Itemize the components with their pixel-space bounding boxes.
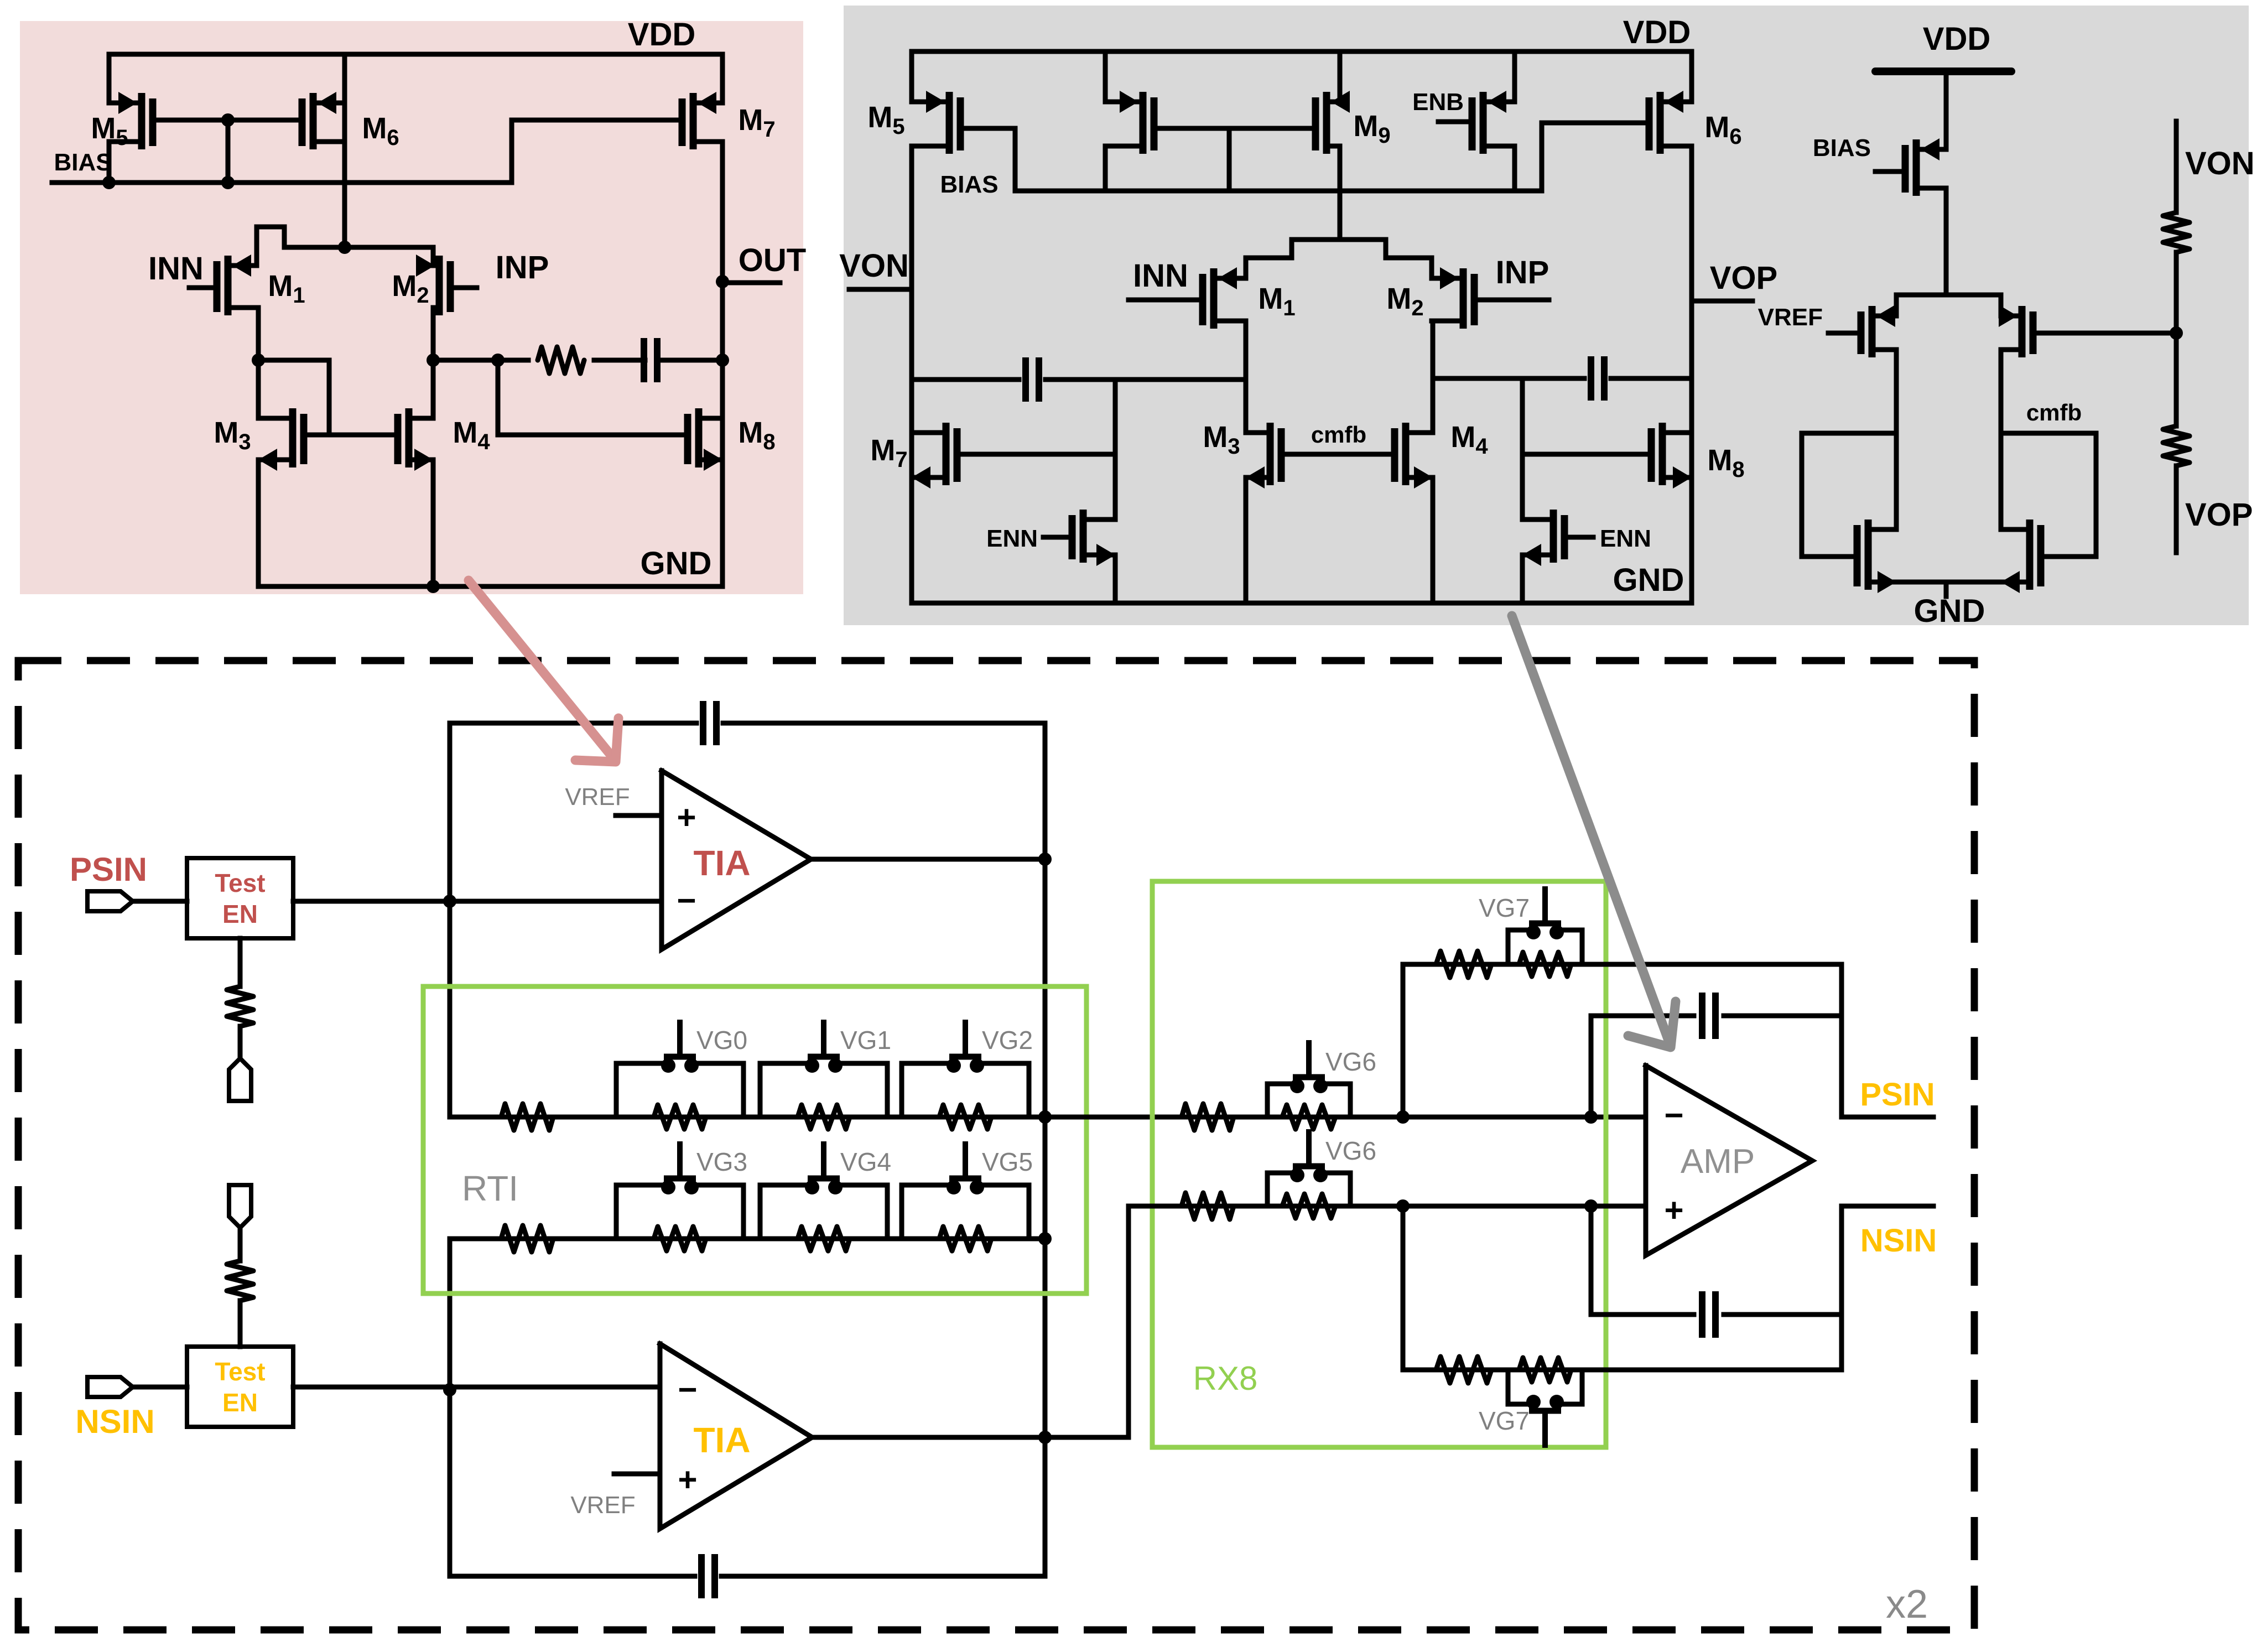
svg-text:NSIN: NSIN: [75, 1403, 154, 1440]
svg-text:NSIN: NSIN: [1860, 1223, 1937, 1259]
svg-text:VG7: VG7: [1479, 893, 1530, 922]
switch resistor unit VG5: [902, 1185, 954, 1239]
svg-text:VG4: VG4: [840, 1147, 891, 1176]
svg-text:OUT: OUT: [739, 242, 806, 278]
transistor M3 (gray NMOS): [1267, 423, 1274, 485]
tail bump bus of gray M1/M2: [1246, 240, 1432, 278]
wire M6 source/drain vertical (VDD to tail node): [342, 54, 347, 247]
switch resistor unit VG6 bottom: [1267, 1173, 1297, 1206]
left diode loop wire: [1802, 433, 1896, 557]
M8 gate tap wire: [498, 360, 688, 435]
feedback column left: [448, 901, 453, 1117]
svg-text:VDD: VDD: [628, 17, 695, 53]
svg-text:VREF: VREF: [570, 1492, 635, 1519]
transistor M1 (gray NMOS input): [1210, 268, 1218, 329]
transistor M6 (pink PMOS): [310, 93, 317, 149]
svg-text:VG2: VG2: [982, 1026, 1033, 1054]
TIA2 output wire: [812, 1206, 1129, 1437]
op-amp AMP triangle: [1646, 1066, 1812, 1255]
svg-text:Test: Test: [215, 869, 265, 897]
svg-text:GND: GND: [1914, 593, 1985, 629]
wire M2 drain down to node: [431, 308, 436, 360]
svg-text:−: −: [1664, 1097, 1683, 1134]
svg-text:ENB: ENB: [1412, 89, 1464, 116]
left cap tap down to M7 gate: [1113, 380, 1118, 520]
node line right with RC branch: [427, 354, 440, 367]
svg-text:x2: x2: [1886, 1582, 1928, 1627]
wire Test EN 1 to TIA1 minus: [293, 899, 662, 904]
CMFB left NMOS (diode): [1865, 520, 1872, 590]
transistor M5 (gray PMOS): [946, 92, 953, 154]
compensation capacitor (pink): [641, 338, 647, 382]
row 1 leading resistor: [501, 1104, 553, 1130]
VDD rail (pink): [109, 54, 722, 103]
M7 gate wire to ENN drain node: [957, 452, 1115, 457]
right cap tap down to M8 gate: [1520, 378, 1525, 520]
ENB gate stub and label: [1438, 120, 1472, 124]
VDD bar of CMFB: [1875, 67, 2011, 75]
switch resistor unit VG7 top: [1508, 930, 1533, 964]
svg-text:VG1: VG1: [840, 1026, 891, 1054]
cmfb gate wire M3-M4 and label: [1281, 452, 1395, 457]
svg-text:VOP: VOP: [2185, 497, 2253, 533]
switch resistor unit VG2: [902, 1063, 954, 1117]
svg-text:−: −: [677, 882, 696, 919]
svg-text:cmfb: cmfb: [2026, 399, 2082, 425]
svg-text:ENN: ENN: [1600, 525, 1651, 552]
svg-text:VDD: VDD: [1923, 21, 1990, 57]
BIAS rail (pink): [52, 120, 682, 183]
switch resistor unit VG0: [616, 1063, 668, 1117]
ENN gate stub and label (right): [1564, 535, 1593, 540]
svg-text:VREF: VREF: [1758, 304, 1823, 331]
PSIN output wire and label: [1842, 1115, 1933, 1120]
svg-text:Test: Test: [215, 1357, 265, 1386]
svg-text:INN: INN: [148, 251, 204, 287]
VON stub and label (gray): [849, 287, 912, 292]
bias mirror PMOS (gray, unlabeled): [1140, 92, 1147, 154]
ENN switch NMOS right (gray): [1550, 510, 1557, 563]
svg-text:AMP: AMP: [1681, 1142, 1755, 1181]
VON-VOP resistor divider: [2174, 121, 2179, 212]
svg-text:BIAS: BIAS: [940, 171, 998, 198]
svg-text:GND: GND: [641, 546, 712, 581]
BIAS line (gray): [1015, 189, 1542, 194]
svg-text:VG7: VG7: [1479, 1406, 1530, 1435]
transistor M9 (gray PMOS): [1323, 92, 1330, 154]
wire M7 drain to OUT vertical: [720, 142, 725, 586]
TIA1 feedback loop with capacitor: [450, 723, 696, 901]
wire gate node to BIAS rail: [226, 120, 231, 183]
svg-text:+: +: [677, 799, 696, 836]
row 2 wire (RTI lower chain): [450, 1237, 1045, 1241]
transistor M8 (pink NMOS): [695, 408, 703, 467]
NSIN output wire and label: [1842, 1204, 1933, 1209]
gate line bias PMOS to M9 with jog to BIAS: [1154, 126, 1315, 131]
svg-text:PSIN: PSIN: [1860, 1077, 1935, 1113]
VDD rail (gray): [912, 51, 1692, 102]
right diode loop wire: [2001, 433, 2096, 557]
TIA2 feedback loop with capacitor: [450, 1239, 695, 1576]
junction dots minus loops: [1396, 1110, 1410, 1124]
wire Test EN 2 to TIA2 minus: [293, 1385, 660, 1390]
M8 gate wire to right ENN node: [1522, 452, 1651, 457]
right rail VOP node vertical: [1689, 146, 1694, 603]
transistor M2 (pink NMOS input): [436, 256, 443, 315]
test stub connector 2: [229, 1185, 251, 1228]
switch resistor unit VG6 top: [1267, 1084, 1297, 1117]
svg-text:+: +: [678, 1461, 697, 1498]
CMFB right PMOS: [2019, 306, 2026, 357]
transistor M4 (pink NMOS): [405, 408, 413, 467]
AMP minus feedback capacitor loop: [1591, 1016, 1694, 1117]
transistor M4 (gray NMOS): [1402, 423, 1410, 485]
switch resistor unit VG1: [760, 1063, 812, 1117]
row 2 wire (NSIN chain into AMP): [1129, 1204, 1646, 1209]
svg-text:VG6: VG6: [1325, 1136, 1376, 1165]
test resistor branch 1: [238, 938, 243, 986]
node line left mirror (pink): [252, 354, 265, 367]
svg-text:RTI: RTI: [462, 1168, 518, 1208]
wire M9 drain to tail: [1338, 146, 1343, 240]
svg-text:GND: GND: [1613, 562, 1684, 598]
svg-text:VDD: VDD: [1623, 14, 1691, 50]
svg-text:VREF: VREF: [565, 783, 630, 811]
INN gate stub: [189, 285, 217, 290]
wire M6 gate from ENB drain: [1542, 123, 1649, 191]
RTI green box: [423, 986, 1086, 1293]
CMFB right PMOS gate wire to resistor divider: [2033, 331, 2176, 336]
left rail VON node vertical: [909, 146, 914, 603]
op-amp TIA1 triangle: [662, 771, 811, 949]
transistor M2 (gray NMOS input): [1460, 268, 1467, 329]
svg-text:INP: INP: [1496, 254, 1549, 290]
INP gate stub: [450, 285, 477, 290]
feedback column right: [1043, 723, 1048, 1576]
svg-text:PSIN: PSIN: [70, 851, 147, 888]
switch resistor unit VG7 bottom: [1508, 1370, 1533, 1404]
svg-text:VOP: VOP: [1710, 260, 1778, 296]
ENN switch NMOS left (gray): [1080, 510, 1087, 563]
row 2 leading resistor: [501, 1225, 553, 1252]
svg-text:+: +: [1664, 1192, 1683, 1229]
svg-text:−: −: [678, 1371, 697, 1408]
shared gate wire M3-M4: [304, 433, 398, 438]
TIA1 output wire: [811, 857, 1045, 862]
wire M1 drain down: [1244, 321, 1249, 433]
svg-text:INP: INP: [496, 250, 549, 285]
ENN gate stub and label (left): [1043, 535, 1072, 540]
transistor M7 (pink PMOS): [690, 93, 697, 149]
wire BIAS drain to CMFB pair tail: [1944, 188, 1949, 295]
GND rail (pink): [258, 584, 722, 589]
transistor M7 (gray NMOS): [943, 423, 950, 485]
GND rail (gray): [912, 601, 1692, 606]
pink annotation arrow from pink schematic to TIA1: [469, 580, 614, 759]
RX8 leading resistor row1: [1182, 1104, 1234, 1130]
svg-text:BIAS: BIAS: [54, 149, 112, 176]
ENB switch PMOS (gray): [1480, 92, 1487, 154]
AMP plus feedback capacitor loop: [1591, 1206, 1694, 1315]
PSIN input port connector: [133, 899, 187, 904]
gate line M5-M6 with node: [153, 118, 302, 123]
svg-text:INN: INN: [1133, 258, 1188, 294]
svg-text:VG3: VG3: [696, 1147, 747, 1176]
transistor M1 (pink NMOS input): [225, 256, 232, 315]
switch resistor unit VG3: [616, 1185, 668, 1239]
INN gate stub (gray): [1129, 298, 1203, 303]
gray annotation arrow from gray schematic to AMP: [1512, 616, 1668, 1040]
svg-text:VON: VON: [839, 248, 909, 284]
transistor M8 (gray NMOS): [1659, 423, 1666, 485]
svg-text:RX8: RX8: [1193, 1360, 1258, 1397]
svg-text:EN: EN: [222, 1388, 258, 1417]
wire capacitor to OUT: [657, 358, 722, 363]
svg-text:VG5: VG5: [982, 1147, 1033, 1176]
VREF stub TIA1: [616, 813, 662, 818]
INP gate stub (gray): [1474, 298, 1549, 303]
svg-text:EN: EN: [222, 900, 258, 928]
BIAS transistor of CMFB: [1913, 139, 1920, 196]
wire M2 drain down: [1431, 321, 1436, 433]
junction dots TIA1: [443, 895, 456, 908]
svg-text:VG0: VG0: [696, 1026, 747, 1054]
wire resistor to capacitor: [594, 358, 645, 363]
svg-text:cmfb: cmfb: [1311, 422, 1366, 448]
VREF stub TIA2: [614, 1472, 660, 1477]
CMFB left PMOS VREF: [1869, 306, 1876, 357]
transistor M5 (pink PMOS): [138, 93, 145, 149]
test stub connector 1: [229, 1058, 251, 1101]
switch resistor unit VG4: [760, 1185, 812, 1239]
NSIN input port connector: [133, 1385, 187, 1390]
dashed system boundary box: [18, 661, 1974, 1630]
gray amplifier schematic background: [844, 6, 2249, 625]
AMP plus feedback resistor loop with VG7: [1403, 1206, 1842, 1370]
OUT node and stub: [716, 275, 729, 288]
wire M1 drain down to mirror node: [256, 308, 261, 360]
VOP stub and label (gray): [1692, 299, 1753, 304]
compensation resistor (pink): [538, 347, 584, 373]
CMFB pair tail bus: [1896, 295, 2001, 316]
RX8 green box: [1152, 881, 1606, 1447]
transistor M6 (gray PMOS): [1657, 92, 1664, 154]
test resistor branch 2: [238, 1301, 243, 1347]
svg-text:BIAS: BIAS: [1813, 134, 1871, 162]
CMFB right NMOS (diode): [2026, 520, 2034, 590]
svg-text:TIA: TIA: [693, 843, 750, 883]
AMP minus feedback resistor loop with VG7: [1403, 964, 1646, 1117]
row 1 wire (PSIN chain): [450, 1115, 1646, 1120]
junction dots plus loops: [1396, 1199, 1410, 1213]
CMFB bottom bus and GND stub: [1896, 580, 2001, 585]
left compensation capacitor row (gray): [912, 377, 1019, 382]
RX8 leading resistor row2: [1182, 1193, 1234, 1219]
pink amplifier schematic background: [20, 21, 803, 594]
svg-text:TIA: TIA: [693, 1420, 750, 1460]
Test EN box 1: [187, 858, 293, 938]
op-amp TIA2 triangle: [660, 1344, 812, 1529]
wire M5 gate jog to BIAS: [960, 128, 1015, 191]
svg-text:VON: VON: [2185, 146, 2255, 181]
svg-text:VG6: VG6: [1325, 1047, 1376, 1076]
svg-text:ENN: ENN: [986, 525, 1038, 552]
Test EN box 2: [187, 1347, 293, 1427]
right compensation capacitor row (gray): [1433, 376, 1584, 381]
tail node and bus of M1/M2 (pink): [338, 241, 351, 254]
transistor M3 (pink NMOS): [289, 408, 297, 467]
